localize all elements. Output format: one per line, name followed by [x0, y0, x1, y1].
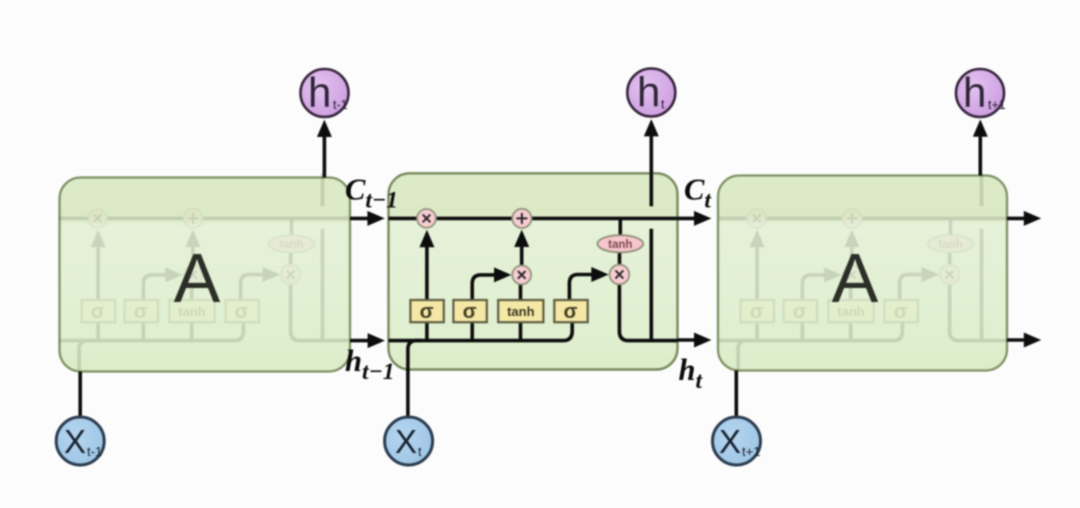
svg-text:t+1: t+1: [988, 98, 1006, 112]
wire: C_t arrow between middle and right cells: [677, 217, 694, 221]
ghost internals of right cell: [719, 173, 1008, 370]
wire: middle cell up to h_t circle: [649, 136, 653, 173]
svg-text:h: h: [963, 69, 986, 116]
node X_t+1 (blue circle): [713, 417, 761, 465]
ghost internals of left cell: [60, 173, 349, 370]
svg-text:h: h: [637, 69, 660, 116]
wire: C_t-1 arrow between left and middle cells: [350, 217, 368, 221]
svg-text:X: X: [395, 423, 417, 460]
cell A (left, previous timestep) rounded body: [60, 178, 351, 372]
cell A (right, next timestep) rounded body: [718, 176, 1007, 371]
wire: C arrow exiting right cell: [1007, 217, 1024, 221]
svg-text:t-1: t-1: [87, 444, 102, 459]
svg-text:t+1: t+1: [742, 444, 760, 459]
svg-text:A: A: [174, 239, 221, 317]
wire: right cell up to h_t+1 circle: [978, 137, 982, 176]
wire: h_t arrow between middle and right cells: [677, 338, 694, 342]
svg-text:A: A: [832, 239, 879, 317]
svg-text:t: t: [661, 98, 665, 112]
node X_t (blue circle): [385, 417, 433, 465]
svg-text:t: t: [418, 444, 422, 459]
node h_t+1 (purple circle): [956, 69, 1006, 117]
wire: h_t-1 arrow between left and middle cells: [350, 339, 368, 343]
node h_t (purple circle): [627, 69, 675, 117]
node X_t-1 (blue circle): [56, 417, 104, 465]
wire: X_t+1 circle up into right cell: [734, 371, 738, 417]
cell (middle, current timestep) rounded body: [389, 173, 678, 369]
wire: h arrow exiting right cell: [1007, 338, 1024, 342]
wire: X_t-1 circle up into left cell: [78, 372, 82, 417]
svg-text:X: X: [64, 423, 86, 460]
svg-text:h: h: [308, 69, 331, 116]
internals of middle cell: [389, 173, 678, 370]
svg-text:X: X: [719, 423, 741, 460]
node h_t-1 (purple circle): [301, 69, 349, 117]
wire: left cell up to h_t-1 circle: [323, 137, 327, 178]
svg-text:t-1: t-1: [333, 98, 348, 112]
wire: X_t circle up into middle cell: [406, 370, 410, 417]
